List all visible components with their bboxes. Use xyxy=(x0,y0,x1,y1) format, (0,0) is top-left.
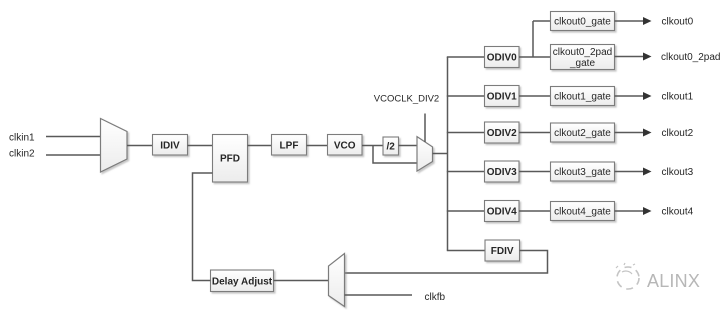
divider ODIV2 xyxy=(485,122,520,143)
svg-text:ALINX: ALINX xyxy=(647,271,700,291)
wire arrow clkout2 xyxy=(615,132,644,134)
svg-text:ODIV4: ODIV4 xyxy=(487,206,517,217)
svg-text:clkfb: clkfb xyxy=(425,292,446,303)
svg-text:clkout0_2pad: clkout0_2pad xyxy=(553,47,613,58)
svg-text:clkout1_gate: clkout1_gate xyxy=(554,91,611,102)
wire bus to ODIV0 xyxy=(447,56,485,58)
wire Delay Adjust to PFD feedback xyxy=(193,173,213,281)
svg-text:clkout4_gate: clkout4_gate xyxy=(554,206,611,217)
svg-text:IDIV: IDIV xyxy=(160,140,180,151)
wire arrow clkout0_2pad xyxy=(615,56,644,58)
wire ODIV3 to gate xyxy=(519,171,551,173)
gate clkout3_gate xyxy=(551,162,615,181)
wire bus to ODIV3 xyxy=(447,171,485,173)
wire arrow clkout4 xyxy=(615,210,644,212)
block PFD phase frequency detector xyxy=(213,135,248,183)
divider /2 xyxy=(383,137,399,155)
svg-text:clkout0: clkout0 xyxy=(662,16,694,27)
wire VCOCLK_DIV2 select line xyxy=(424,114,426,143)
wire clkin2 to input mux xyxy=(46,154,101,156)
wire clkfb input to mux U3 xyxy=(345,294,413,296)
svg-text:clkout2: clkout2 xyxy=(662,128,694,139)
wire FDIV feedback return to mux U3 xyxy=(345,251,548,274)
svg-text:/2: /2 xyxy=(387,142,396,153)
wire ODIV0 output branch junction xyxy=(519,21,551,57)
svg-text:ODIV0: ODIV0 xyxy=(487,52,517,63)
wire arrow clkout1 xyxy=(615,95,644,97)
svg-text:ODIV3: ODIV3 xyxy=(487,167,517,178)
svg-text:clkout3: clkout3 xyxy=(662,167,694,178)
svg-text:clkout2_gate: clkout2_gate xyxy=(554,128,611,139)
divider FDIV feedback divider xyxy=(485,240,520,261)
divider IDIV xyxy=(153,135,188,156)
svg-text:Delay Adjust: Delay Adjust xyxy=(212,276,273,287)
wire mux U2 output to bus xyxy=(433,153,448,155)
svg-text:ODIV2: ODIV2 xyxy=(487,128,517,139)
wire bus to FDIV xyxy=(447,250,485,252)
wire vertical distribution bus xyxy=(447,57,449,251)
wire VCO bypass branch to mux U2 xyxy=(373,146,417,164)
wire arrow clkout3 xyxy=(615,171,644,173)
svg-text:clkout4: clkout4 xyxy=(662,206,694,217)
wire LPF to VCO xyxy=(307,145,328,147)
gate clkout2_gate xyxy=(551,123,615,142)
wire VCO output to /2 divider xyxy=(362,145,383,147)
block VCO oscillator xyxy=(328,135,363,156)
divider ODIV4 xyxy=(485,201,520,222)
gate clkout0_2pad_gate xyxy=(551,45,615,70)
svg-text:clkout0_2pad: clkout0_2pad xyxy=(661,52,720,63)
gate clkout4_gate xyxy=(551,202,615,221)
wire ODIV4 to gate xyxy=(519,210,551,212)
svg-text:ODIV1: ODIV1 xyxy=(487,91,517,102)
svg-text:FDIV: FDIV xyxy=(491,246,514,257)
svg-text:PFD: PFD xyxy=(220,154,240,165)
gate clkout1_gate xyxy=(551,87,615,106)
divider ODIV3 xyxy=(485,161,520,182)
svg-text:clkout3_gate: clkout3_gate xyxy=(554,167,611,178)
watermark ALINX logo mark xyxy=(616,263,639,289)
gate clkout0_gate xyxy=(551,12,615,31)
wire /2 to mux U2 xyxy=(399,145,418,147)
svg-text:_gate: _gate xyxy=(569,58,595,69)
wire bus to ODIV2 xyxy=(447,132,485,134)
divider ODIV1 xyxy=(485,86,520,107)
svg-text:VCO: VCO xyxy=(334,140,356,151)
svg-text:clkout1: clkout1 xyxy=(662,91,694,102)
wire ODIV2 to gate xyxy=(519,132,551,134)
mux U3 feedback mux xyxy=(329,254,345,307)
wire IDIV to PFD xyxy=(188,145,213,147)
svg-text:clkin2: clkin2 xyxy=(9,148,35,159)
svg-text:VCOCLK_DIV2: VCOCLK_DIV2 xyxy=(374,93,439,104)
mux U2 vco clock mux xyxy=(417,137,433,172)
wire arrow clkout0 xyxy=(615,20,644,22)
wire clkin1 to input mux xyxy=(46,136,101,138)
block Delay Adjust xyxy=(211,270,274,292)
wire bus to ODIV1 xyxy=(447,95,485,97)
wire mux U3 output to Delay Adjust xyxy=(274,280,329,282)
wire mux U1 output to IDIV xyxy=(127,145,153,147)
svg-text:LPF: LPF xyxy=(280,140,299,151)
wire ODIV1 to gate xyxy=(519,95,551,97)
svg-text:clkin1: clkin1 xyxy=(9,132,35,143)
block LPF loop filter xyxy=(272,135,307,156)
svg-text:clkout0_gate: clkout0_gate xyxy=(554,16,611,27)
wire PFD to LPF xyxy=(248,145,272,147)
divider ODIV0 xyxy=(485,47,520,68)
wire bus to ODIV4 xyxy=(447,210,485,212)
mux U1 input clock mux xyxy=(101,119,128,173)
